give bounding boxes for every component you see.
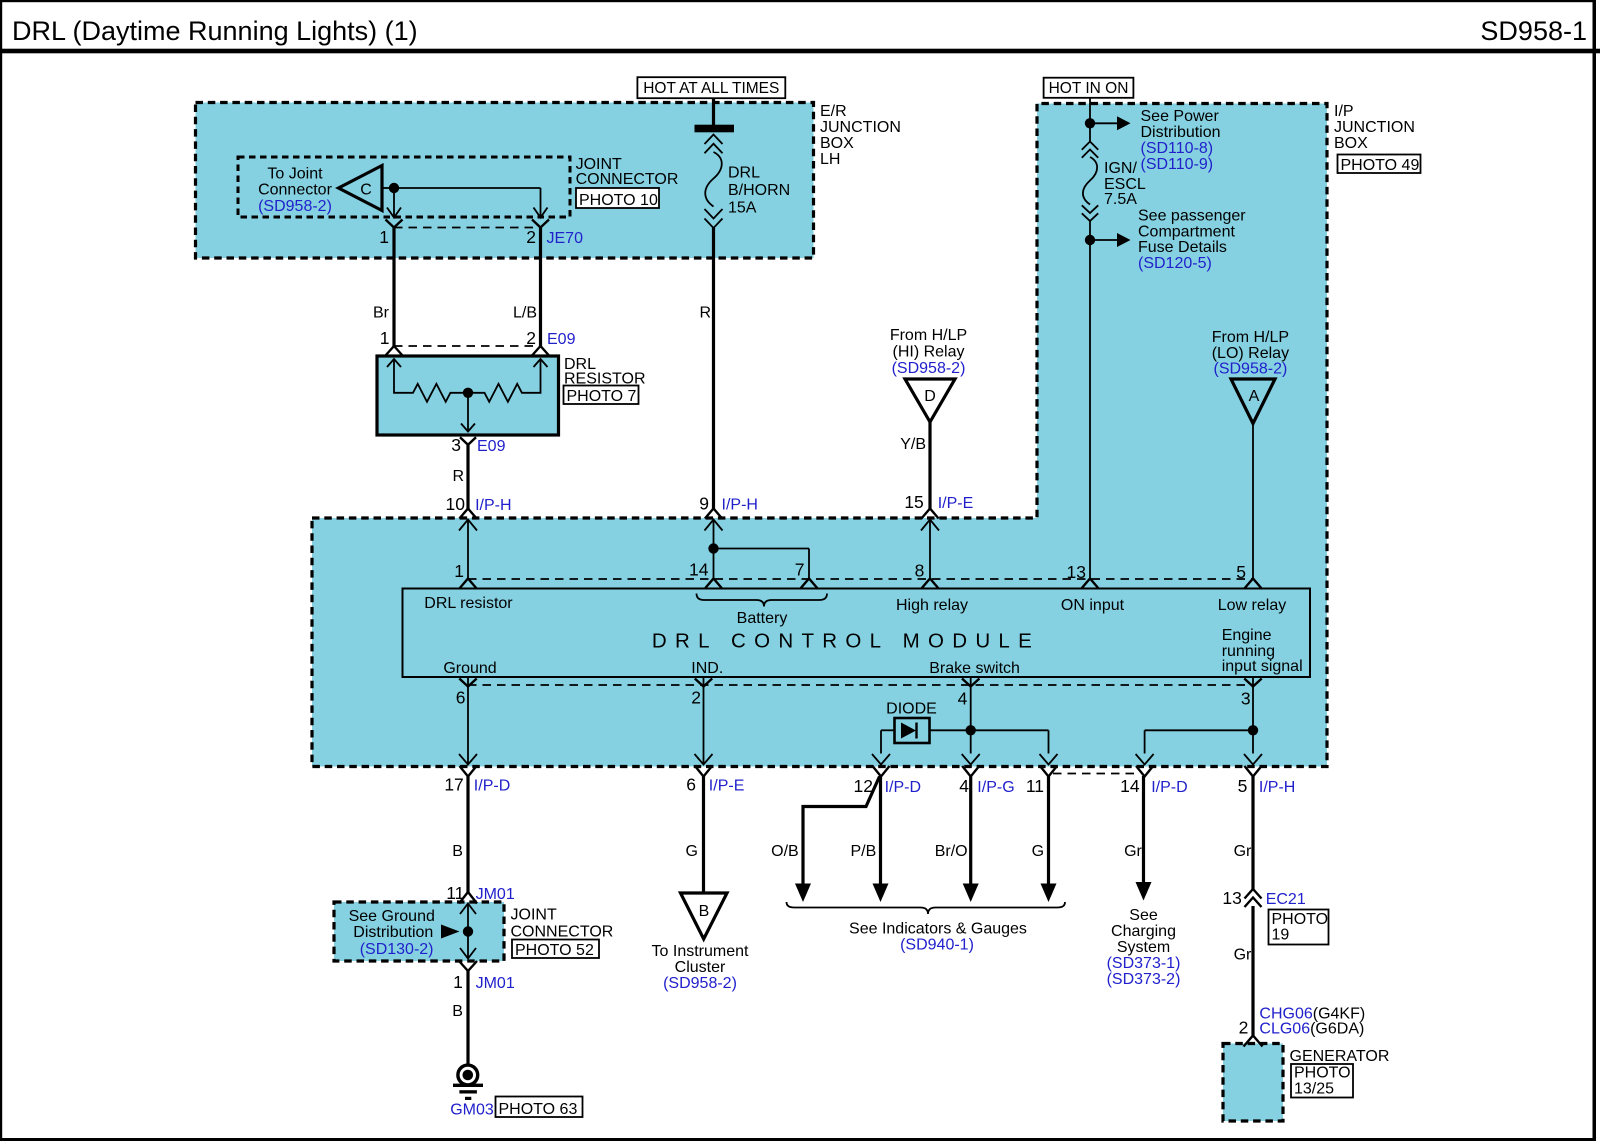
svg-text:PHOTO 10: PHOTO 10	[579, 192, 658, 209]
svg-text:15: 15	[904, 492, 923, 512]
svg-text:R: R	[699, 305, 711, 322]
svg-text:Cluster: Cluster	[675, 959, 726, 976]
svg-text:RESISTOR: RESISTOR	[564, 371, 646, 388]
svg-text:CONNECTOR: CONNECTOR	[576, 171, 679, 188]
svg-text:Y/B: Y/B	[900, 436, 926, 453]
svg-text:PHOTO 7: PHOTO 7	[567, 388, 637, 405]
svg-text:B: B	[452, 843, 463, 860]
svg-text:PHOTO: PHOTO	[1272, 911, 1329, 928]
svg-text:(SD120-5): (SD120-5)	[1138, 255, 1212, 272]
svg-text:Charging: Charging	[1111, 923, 1176, 940]
svg-text:(HI) Relay: (HI) Relay	[892, 344, 964, 361]
svg-text:Brake switch: Brake switch	[929, 660, 1020, 677]
svg-text:17: 17	[444, 775, 463, 795]
svg-text:(SD110-9): (SD110-9)	[1141, 156, 1214, 173]
svg-text:PHOTO: PHOTO	[1294, 1065, 1351, 1082]
svg-text:PHOTO 52: PHOTO 52	[515, 942, 594, 959]
svg-text:(SD958-2): (SD958-2)	[258, 198, 332, 215]
svg-text:JUNCTION: JUNCTION	[1334, 119, 1415, 136]
svg-text:(SD130-2): (SD130-2)	[360, 941, 434, 958]
svg-text:Distribution: Distribution	[353, 924, 433, 941]
svg-text:19: 19	[1272, 927, 1290, 944]
svg-text:DRL resistor: DRL resistor	[424, 595, 513, 612]
svg-text:6: 6	[456, 688, 466, 708]
svg-text:I/P-D: I/P-D	[474, 778, 510, 795]
svg-text:P/B: P/B	[851, 843, 877, 860]
svg-text:GENERATOR: GENERATOR	[1290, 1048, 1390, 1065]
svg-text:L/B: L/B	[513, 305, 537, 322]
svg-text:(LO) Relay: (LO) Relay	[1212, 345, 1289, 362]
svg-text:JOINT: JOINT	[511, 907, 557, 924]
svg-text:7.5A: 7.5A	[1104, 191, 1137, 208]
svg-text:To Joint: To Joint	[267, 166, 323, 183]
svg-text:1: 1	[453, 972, 463, 992]
svg-text:11: 11	[1026, 776, 1044, 796]
svg-text:B: B	[452, 1003, 463, 1020]
svg-text:Ground: Ground	[443, 660, 496, 677]
svg-text:I/P-D: I/P-D	[1151, 779, 1187, 796]
svg-text:1: 1	[454, 561, 464, 581]
svg-text:4: 4	[958, 689, 968, 709]
svg-text:input signal: input signal	[1222, 658, 1303, 675]
svg-text:I/P-D: I/P-D	[885, 779, 921, 796]
svg-text:Gr: Gr	[1234, 947, 1252, 964]
svg-text:C: C	[360, 182, 372, 199]
svg-text:1: 1	[379, 227, 389, 247]
svg-text:BOX: BOX	[820, 135, 854, 152]
svg-text:Distribution: Distribution	[1141, 124, 1221, 141]
svg-text:13: 13	[1222, 888, 1241, 908]
svg-text:PHOTO 63: PHOTO 63	[499, 1101, 578, 1118]
svg-text:HOT IN ON: HOT IN ON	[1049, 80, 1129, 97]
svg-text:From H/LP: From H/LP	[890, 327, 967, 344]
svg-text:G: G	[686, 843, 698, 860]
svg-text:Gr: Gr	[1124, 843, 1142, 860]
svg-text:See Power: See Power	[1141, 108, 1220, 125]
svg-text:(SD958-2): (SD958-2)	[1213, 361, 1287, 378]
svg-text:Low relay: Low relay	[1218, 597, 1286, 614]
svg-text:Br/O: Br/O	[935, 843, 968, 860]
svg-text:9: 9	[699, 494, 709, 514]
svg-text:12: 12	[854, 776, 873, 796]
svg-text:E09: E09	[547, 331, 576, 348]
svg-text:14: 14	[1120, 776, 1140, 796]
svg-text:HOT AT ALL TIMES: HOT AT ALL TIMES	[643, 80, 779, 97]
svg-text:7: 7	[795, 560, 805, 580]
svg-text:I/P-H: I/P-H	[1259, 779, 1295, 796]
svg-text:I/P-H: I/P-H	[475, 497, 511, 514]
svg-text:(SD940-1): (SD940-1)	[900, 937, 974, 954]
svg-text:DIODE: DIODE	[886, 701, 937, 718]
svg-text:B: B	[699, 903, 710, 920]
svg-text:High relay: High relay	[896, 597, 968, 614]
svg-text:5: 5	[1238, 776, 1248, 796]
svg-text:3: 3	[451, 435, 461, 455]
svg-text:See: See	[1129, 907, 1158, 924]
svg-text:JM01: JM01	[476, 886, 515, 903]
svg-text:E09: E09	[477, 438, 506, 455]
svg-text:2: 2	[526, 328, 536, 348]
svg-text:1: 1	[380, 328, 390, 348]
svg-text:D: D	[924, 388, 936, 405]
svg-text:BOX: BOX	[1334, 135, 1368, 152]
svg-text:(SD373-1): (SD373-1)	[1107, 955, 1181, 972]
svg-text:LH: LH	[820, 151, 840, 168]
svg-text:A: A	[1249, 388, 1260, 405]
svg-text:13/25: 13/25	[1294, 1080, 1334, 1097]
svg-text:IGN/: IGN/	[1104, 160, 1137, 177]
svg-text:O/B: O/B	[771, 843, 799, 860]
svg-text:To Instrument: To Instrument	[652, 943, 749, 960]
svg-text:I/P-G: I/P-G	[977, 779, 1014, 796]
svg-text:Engine: Engine	[1222, 627, 1272, 644]
svg-text:System: System	[1117, 939, 1170, 956]
svg-text:8: 8	[915, 561, 925, 581]
svg-text:PHOTO 49: PHOTO 49	[1341, 157, 1420, 174]
svg-text:Battery: Battery	[737, 610, 788, 627]
svg-text:2: 2	[1239, 1018, 1249, 1038]
svg-text:CLG06(G6DA): CLG06(G6DA)	[1259, 1021, 1364, 1038]
svg-text:Connector: Connector	[258, 182, 332, 199]
svg-text:R: R	[452, 468, 464, 485]
svg-text:GM03: GM03	[450, 1102, 494, 1119]
svg-text:I/P-E: I/P-E	[709, 778, 745, 795]
svg-text:3: 3	[1241, 689, 1251, 709]
svg-text:2: 2	[526, 227, 536, 247]
svg-text:ON input: ON input	[1061, 597, 1125, 614]
svg-text:14: 14	[689, 560, 709, 580]
svg-text:See Indicators & Gauges: See Indicators & Gauges	[849, 921, 1027, 938]
svg-text:From H/LP: From H/LP	[1212, 329, 1289, 346]
svg-text:Fuse Details: Fuse Details	[1138, 239, 1227, 256]
svg-text:6: 6	[686, 775, 696, 795]
svg-text:E/R: E/R	[820, 103, 847, 120]
svg-text:JE70: JE70	[547, 230, 584, 247]
svg-text:Compartment: Compartment	[1138, 224, 1235, 241]
svg-text:(SD110-8): (SD110-8)	[1141, 140, 1214, 157]
svg-text:(SD373-2): (SD373-2)	[1107, 971, 1181, 988]
svg-text:DRL (Daytime Running Lights) (: DRL (Daytime Running Lights) (1)	[12, 16, 418, 46]
svg-text:11: 11	[446, 883, 464, 903]
svg-text:See Ground: See Ground	[349, 908, 435, 925]
svg-text:See passenger: See passenger	[1138, 208, 1246, 225]
svg-text:IND.: IND.	[691, 660, 723, 677]
svg-text:I/P: I/P	[1334, 103, 1354, 120]
svg-text:I/P-H: I/P-H	[722, 497, 758, 514]
svg-text:(SD958-2): (SD958-2)	[663, 975, 737, 992]
svg-text:Gr: Gr	[1234, 843, 1252, 860]
svg-text:CONNECTOR: CONNECTOR	[511, 924, 614, 941]
svg-text:10: 10	[446, 494, 466, 514]
svg-text:Br: Br	[373, 305, 390, 322]
svg-text:2: 2	[691, 688, 701, 708]
svg-text:JUNCTION: JUNCTION	[820, 119, 901, 136]
svg-text:DRL: DRL	[728, 165, 760, 182]
svg-text:B/HORN: B/HORN	[728, 182, 790, 199]
svg-text:I/P-E: I/P-E	[938, 495, 974, 512]
svg-text:JM01: JM01	[476, 975, 515, 992]
svg-text:SD958-1: SD958-1	[1480, 16, 1587, 46]
svg-text:13: 13	[1067, 562, 1086, 582]
svg-text:DRL CONTROL MODULE: DRL CONTROL MODULE	[652, 630, 1040, 653]
svg-text:(SD958-2): (SD958-2)	[892, 360, 966, 377]
svg-text:G: G	[1032, 843, 1044, 860]
svg-text:15A: 15A	[728, 200, 757, 217]
svg-text:5: 5	[1236, 562, 1246, 582]
svg-text:EC21: EC21	[1266, 891, 1306, 908]
svg-text:4: 4	[959, 776, 969, 796]
